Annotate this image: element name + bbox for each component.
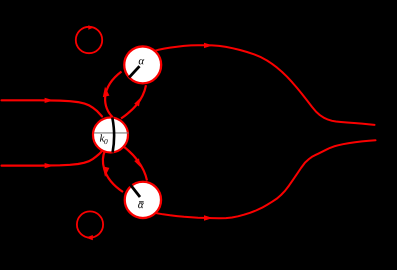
lens contour: left branch k0 to alpha (arrow up) [103, 72, 122, 118]
branch point alpha-bar: circle [125, 182, 161, 218]
big contour: steepest-descent path from alpha to right (upper) [153, 43, 375, 125]
branch point alpha: circle [124, 46, 161, 83]
branch cut at alpha-bar (black line) [130, 184, 140, 197]
lens contour: right branch k0 to alpha (arrow up) [121, 85, 146, 118]
branch cut at alpha (black line) [129, 66, 140, 77]
branch point k0: circle [93, 118, 128, 153]
label alpha [139, 59, 145, 64]
wire: incoming contour line lower-left [2, 151, 103, 169]
label k0 [100, 134, 105, 141]
real axis segment through k0 [94, 132, 129, 134]
label alpha-bar [138, 202, 144, 208]
lens contour: right branch k0 to alpha-bar (arrow down) [124, 147, 148, 181]
wire: incoming contour line upper-left [2, 98, 103, 117]
small contour circle C2 (bottom-left) [77, 211, 103, 240]
small contour circle C1 (top-left) [76, 25, 102, 53]
big contour: steepest-descent path from alpha-bar to right (lower) [157, 140, 376, 220]
branch cut through k0 (black arc) [112, 118, 114, 153]
lens contour: left branch k0 to alpha-bar (arrow down) [103, 151, 123, 193]
